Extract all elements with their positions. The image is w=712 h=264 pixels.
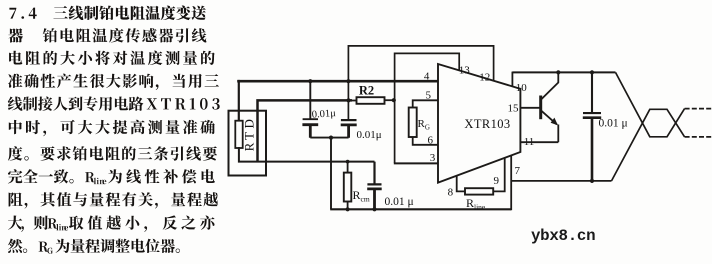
wire dashed continuation bottom: [685, 136, 712, 138]
resistor Rcm: [347, 162, 349, 210]
wire pin 7 to bottom rail: [510, 156, 512, 210]
transistor Q1 base bar: [539, 96, 542, 120]
junction C4 bottom: [590, 179, 594, 183]
resistor R2: [357, 97, 385, 104]
wire second top loop (to pin 13): [395, 53, 460, 162]
junction C3 bottom: [372, 207, 376, 211]
wire top supply rail: [237, 80, 438, 83]
text line 11: [8, 239, 180, 254]
text line 10: [8, 215, 215, 231]
transistor Q1 collector: [541, 72, 558, 100]
junction R2 right: [392, 98, 396, 102]
svg-text:7: 7: [515, 165, 521, 177]
svg-text:RTD: RTD: [242, 116, 257, 152]
svg-text:XTR103: XTR103: [464, 117, 510, 131]
svg-text:4: 4: [424, 70, 430, 82]
capacitor C2 0.01u: [341, 119, 357, 121]
wire dashed continuation top: [685, 108, 712, 110]
wire output high side: [512, 71, 615, 73]
junction C4 top: [590, 70, 594, 74]
wire twisted pair strand A: [616, 72, 685, 136]
svg-text:12: 12: [479, 71, 490, 83]
wire middle (RTD lead 3): [239, 147, 375, 162]
wire caps common: [310, 138, 348, 210]
svg-text:3: 3: [430, 152, 436, 164]
resistor RG: [409, 108, 417, 138]
junction Rcm bottom: [346, 207, 350, 211]
svg-text:Rline: Rline: [466, 196, 486, 212]
svg-text:R2: R2: [359, 84, 374, 98]
wire RTD lead 1 vertical: [238, 80, 240, 122]
svg-text:ybx8.cn: ybx8.cn: [531, 227, 595, 245]
junction caps common: [329, 136, 333, 140]
svg-text:13: 13: [459, 64, 471, 76]
junction R2 left: [346, 98, 350, 102]
text line 5: [8, 96, 220, 111]
svg-text:0.01μ: 0.01μ: [357, 129, 382, 141]
wire bottom rail: [330, 208, 511, 210]
wire pin 10 riser: [511, 72, 513, 87]
transistor Q1 emitter: [541, 111, 556, 125]
capacitor C4 0.01u: [583, 72, 601, 113]
capacitor C3 0.01u: [367, 162, 381, 185]
svg-text:5: 5: [426, 89, 432, 101]
svg-text:0.01 μ: 0.01 μ: [599, 117, 628, 129]
svg-text:RG: RG: [418, 118, 430, 132]
text line 6: [9, 120, 215, 136]
junction top rail / loop: [346, 79, 350, 83]
resistor RTD: [235, 121, 242, 148]
node RTD sensor box: [229, 111, 267, 176]
svg-text:6: 6: [427, 134, 433, 146]
svg-text:10: 10: [516, 82, 528, 94]
text line 2: [8, 28, 206, 42]
text line 9: [9, 192, 219, 208]
svg-text:Rcm: Rcm: [353, 188, 370, 204]
wire pin 11: [520, 141, 558, 143]
text line 8: [8, 169, 215, 184]
wire output low side: [511, 180, 611, 182]
junction Rcm top: [346, 160, 350, 164]
text line 3: [9, 51, 215, 65]
svg-text:15: 15: [508, 102, 520, 114]
text line 1: [9, 5, 206, 20]
transistor Q1 base wire: [520, 107, 540, 109]
text line 4: [8, 74, 219, 90]
junction collector / rail: [556, 70, 560, 74]
svg-text:9: 9: [494, 175, 500, 187]
wire twisted pair strand B: [612, 109, 685, 181]
junction top rail / C1: [308, 79, 312, 83]
svg-text:0.01 μ: 0.01 μ: [385, 196, 414, 208]
wire pin 5: [413, 100, 438, 107]
capacitor C1 0.01u: [303, 81, 318, 119]
op-amp U1 XTR103 body: [438, 64, 520, 183]
wire pin 6: [413, 137, 438, 145]
wire outer top loop (to pin 12): [348, 46, 493, 120]
svg-text:0.01μ: 0.01μ: [311, 108, 336, 121]
svg-text:8: 8: [448, 186, 454, 198]
resistor Rline: [457, 176, 465, 191]
text line 7: [8, 146, 217, 161]
wire second rail (RTD lead 2): [258, 100, 353, 161]
wire pin 3: [394, 162, 438, 164]
